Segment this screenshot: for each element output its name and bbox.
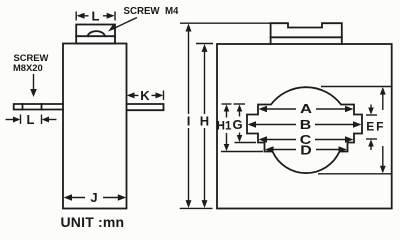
svg-text:G: G [232,117,242,132]
dim I bottom arrowhead [186,200,192,208]
dim F line [382,94,384,168]
dim G shafts [239,109,241,137]
dim H1 bottom arrowhead [224,144,230,151]
dim G bottom extension line [235,142,257,144]
dim L top line [84,15,109,17]
dim H tick top [196,43,213,45]
dim E top shaft [370,105,372,110]
dim F bottom arrowhead [380,166,386,174]
dim B right arrowhead [353,121,362,128]
cap inner line [76,35,115,37]
left view top cap [76,25,115,44]
front view square [217,44,392,209]
dim I line [188,26,190,206]
dim H bottom arrowhead [202,200,208,208]
dim L bottom right arrowhead [42,117,49,123]
screw M8X20 arrowhead [30,89,37,97]
left plate division 1 [22,104,24,110]
dim L bottom ticks [21,115,42,125]
dim D right arrowhead [339,146,348,153]
dim A line [265,108,347,110]
dim H1 top tick [222,103,232,105]
svg-text:SCREW M4: SCREW M4 [124,6,180,17]
dim A right arrowhead [345,106,354,113]
dim J right arrowhead [118,194,126,200]
dim L top left arrowhead [77,13,85,19]
dim L bottom left arrowhead [13,117,20,123]
dim E top arrowhead [368,108,374,115]
dim L top ticks [76,12,115,21]
dim J line [72,197,119,199]
dim C left arrowhead [259,136,268,143]
dim E bottom arrowhead [368,139,374,146]
svg-text:M8X20: M8X20 [13,62,43,73]
svg-text:H: H [200,114,209,129]
dim H top arrowhead [202,44,208,52]
svg-text:I: I [187,114,191,129]
dim F top extension line [321,86,392,88]
dim K tick [163,91,165,101]
dim L top right arrowhead [107,13,115,19]
dim G top tick [234,103,246,105]
svg-text:B: B [300,117,312,132]
dim H1 shafts [226,109,228,146]
right terminal plate [127,104,164,110]
svg-text:J: J [90,190,97,205]
svg-text:L: L [92,9,100,24]
svg-text:K: K [140,88,150,103]
dim I extension line top [180,22,271,24]
dim F bottom extension line [318,173,392,175]
dim C right arrowhead [345,136,354,143]
svg-text:D: D [300,143,312,158]
dim A left arrowhead [259,106,268,113]
dim I top arrowhead [186,24,192,32]
screw dome [88,31,105,36]
svg-text:UNIT :mn: UNIT :mn [61,214,125,230]
dim E top tick [366,114,377,116]
svg-text:L: L [27,112,35,127]
center boss outline [247,87,362,173]
dim J left arrowhead [64,194,72,200]
dim K right arrowhead [156,92,164,98]
svg-text:F: F [376,120,383,134]
left terminal plate [14,104,63,110]
dim D left arrowhead [265,146,274,153]
dim L bottom right arrow shaft [48,119,57,121]
left view body [63,44,127,209]
bottom extension line left of square [180,207,213,209]
dim B left arrowhead [248,121,257,128]
dim D line [272,149,340,151]
dim E bottom tick [366,138,377,140]
tab inner line [271,36,342,38]
screw M8X20 arrow shaft [33,74,35,90]
svg-text:H1: H1 [217,121,232,133]
screw M4 leader arrowhead [108,25,117,32]
dim K line [134,94,158,96]
dim F top arrowhead [380,87,386,95]
dim L bottom left arrow shaft [6,119,15,121]
dim C line [266,139,347,141]
left plate division 2 [41,104,43,110]
dim G bottom arrowhead [237,135,243,142]
dim B line [255,124,355,126]
dim H1 top arrowhead [224,104,230,111]
dim G top arrowhead [237,104,243,111]
svg-text:E: E [366,120,374,134]
dim K left arrowhead [127,92,135,98]
dim H line [204,47,206,206]
svg-text:A: A [300,101,313,116]
dim H1 bottom extension line [221,151,263,153]
front view top tab [271,23,342,44]
screw M4 leader line [112,18,137,30]
dim E bottom shaft [370,145,372,151]
